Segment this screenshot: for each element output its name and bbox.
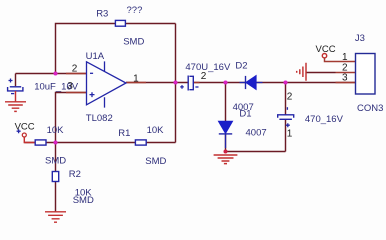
wire cap stub bbox=[15, 74, 17, 87]
op-amp U1A pin 2 bbox=[66, 73, 86, 75]
svg-text:2: 2 bbox=[201, 71, 207, 82]
connector J3 bbox=[356, 54, 376, 95]
junction node divider bbox=[53, 140, 57, 144]
svg-text:2: 2 bbox=[72, 64, 78, 75]
capacitor 470U_16V bbox=[180, 76, 198, 91]
op-amp U1A triangle bbox=[87, 61, 127, 107]
wire input cap to pin 2 bbox=[16, 73, 87, 75]
svg-text:SMD: SMD bbox=[123, 36, 144, 47]
junction node feedback/pin2 bbox=[53, 71, 57, 75]
resistor R1 bbox=[135, 140, 146, 145]
svg-text:4007: 4007 bbox=[246, 128, 267, 139]
ground rotated on J3 pin 2 bbox=[297, 63, 306, 81]
svg-text:10K: 10K bbox=[47, 125, 65, 136]
svg-text:R1: R1 bbox=[118, 128, 130, 139]
svg-text:TL082: TL082 bbox=[86, 113, 113, 124]
wire ground row bbox=[226, 151, 286, 153]
svg-text:470_16V: 470_16V bbox=[305, 114, 344, 125]
svg-text:SMD: SMD bbox=[45, 156, 66, 167]
wire pin 3 to divider bbox=[56, 93, 87, 143]
junction node output bbox=[173, 80, 177, 84]
resistor R3 bbox=[115, 20, 125, 26]
capacitor 470_16V bbox=[278, 107, 294, 127]
svg-text:2: 2 bbox=[287, 91, 293, 102]
diode D2 bbox=[240, 75, 263, 89]
capacitor 10uF_16V bbox=[8, 79, 23, 94]
svg-text:10K: 10K bbox=[147, 125, 165, 136]
connector J3 pin lines bbox=[336, 62, 356, 83]
svg-text:1: 1 bbox=[133, 74, 139, 85]
power port VCC right bbox=[322, 54, 335, 62]
diode D1 bbox=[218, 121, 232, 148]
svg-text:VCC: VCC bbox=[316, 44, 336, 55]
svg-text:10uF_16V: 10uF_16V bbox=[34, 81, 79, 92]
ground under D1 bbox=[214, 150, 238, 164]
ground under 10uF bbox=[5, 91, 26, 111]
svg-text:???: ??? bbox=[127, 5, 143, 16]
wire output rail bbox=[126, 82, 356, 84]
svg-text:R2: R2 bbox=[69, 169, 81, 180]
wire vcc resistor row bbox=[24, 142, 175, 144]
svg-text:R3: R3 bbox=[96, 9, 108, 20]
power port VCC left bbox=[17, 129, 35, 142]
wire bottom cap column bbox=[285, 83, 287, 152]
svg-text:SMD: SMD bbox=[145, 156, 166, 167]
svg-text:3: 3 bbox=[342, 73, 348, 84]
op-amp U1A pin 1 bbox=[126, 82, 146, 84]
wire J3 pin2 from ground bbox=[306, 72, 336, 74]
svg-text:VCC: VCC bbox=[15, 121, 35, 132]
svg-text:1: 1 bbox=[287, 128, 293, 139]
ground under R2 bbox=[45, 212, 66, 222]
wire R2 column bbox=[55, 143, 57, 212]
svg-text:J3: J3 bbox=[355, 33, 365, 44]
svg-text:D1: D1 bbox=[239, 109, 251, 120]
wire D1 column bbox=[225, 83, 227, 152]
op-amp U1A pin 3 bbox=[66, 92, 86, 94]
capacitor 470U right pin bbox=[193, 82, 199, 84]
junction node D1 tap bbox=[223, 80, 227, 84]
junction node bottom cap tap bbox=[283, 80, 287, 84]
svg-text:CON3: CON3 bbox=[357, 103, 383, 114]
svg-text:470U_16V: 470U_16V bbox=[185, 62, 231, 73]
wire feedback right drop to R1 bbox=[175, 24, 177, 143]
resistor 10K left bbox=[35, 140, 46, 145]
resistor R2 bbox=[52, 172, 58, 182]
svg-text:SMD: SMD bbox=[73, 195, 94, 206]
svg-text:2: 2 bbox=[342, 62, 348, 73]
svg-text:U1A: U1A bbox=[86, 51, 105, 62]
svg-text:D2: D2 bbox=[235, 60, 247, 71]
wire feedback top loop bbox=[56, 24, 176, 74]
